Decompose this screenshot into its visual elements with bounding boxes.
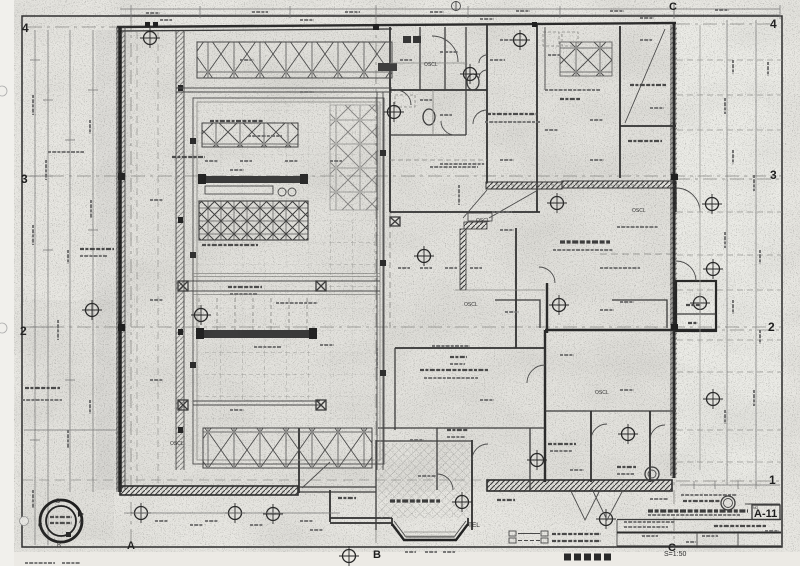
svg-text:S=1:50: S=1:50 bbox=[664, 551, 686, 558]
